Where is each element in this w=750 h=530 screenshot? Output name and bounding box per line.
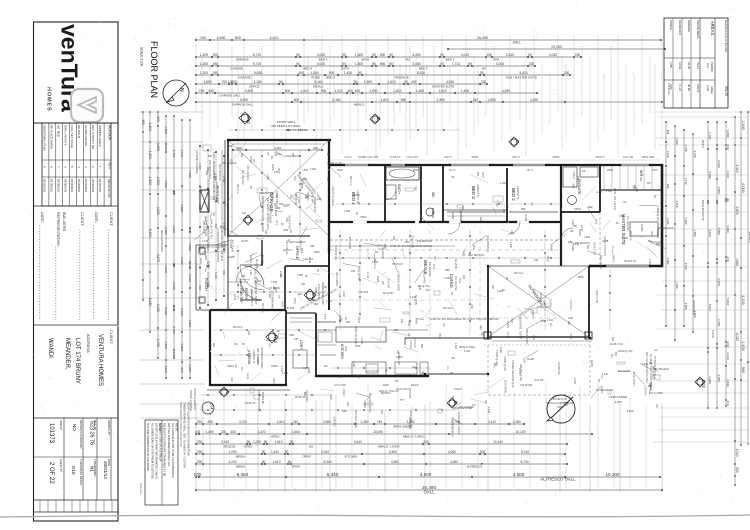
svg-text:3,590: 3,590 — [708, 171, 712, 179]
svg-text:3,610: 3,610 — [627, 409, 634, 413]
svg-text:NO: NO — [72, 424, 77, 431]
svg-text:4,000: 4,000 — [615, 400, 622, 404]
svg-text:DP: DP — [582, 170, 586, 173]
svg-text:5,810: 5,810 — [519, 71, 527, 75]
svg-text:LINEN: LINEN — [309, 299, 317, 302]
svg-text:LINEN: LINEN — [572, 171, 575, 179]
svg-text:190: 190 — [212, 53, 218, 57]
svg-text:2,030: 2,030 — [717, 160, 721, 168]
svg-text:OPNG: OPNG — [227, 365, 234, 368]
svg-text:REF: REF — [310, 245, 315, 248]
svg-text:TILE: TILE — [458, 278, 461, 284]
svg-text:PTY: PTY — [323, 314, 327, 320]
svg-text:6,010: 6,010 — [735, 333, 739, 341]
svg-text:RWP: RWP — [273, 203, 276, 209]
svg-text:4,500: 4,500 — [389, 450, 397, 454]
svg-text:1,800: 1,800 — [180, 343, 184, 351]
svg-text:1,500: 1,500 — [156, 177, 160, 185]
svg-text:PTY: PTY — [594, 219, 597, 224]
svg-text:50mm RENDERED BRICK PROJECTION: 50mm RENDERED BRICK PROJECTION — [179, 402, 182, 447]
svg-text:4,630: 4,630 — [164, 180, 168, 188]
svg-text:OUT AND COMMENCING OF ANY WORK: OUT AND COMMENCING OF ANY WORK. — [146, 423, 149, 472]
svg-text:MEALS AREA: MEALS AREA — [459, 346, 475, 349]
svg-text:330: 330 — [639, 177, 642, 182]
svg-text:230: 230 — [197, 440, 203, 444]
svg-text:600: 600 — [294, 98, 300, 102]
svg-text:BED 2: BED 2 — [701, 140, 705, 149]
svg-text:19,290: 19,290 — [551, 45, 562, 49]
svg-text:DGPO: DGPO — [531, 310, 534, 317]
svg-text:MW: MW — [314, 303, 319, 306]
svg-text:1,410: 1,410 — [366, 272, 369, 279]
sheet number vertical — [0, 0, 1, 1]
svg-text:MEANDER,: MEANDER, — [64, 338, 70, 370]
svg-text:5,810: 5,810 — [726, 298, 730, 306]
svg-text:1,200: 1,200 — [200, 62, 208, 66]
svg-text:100: 100 — [141, 119, 145, 125]
areas table — [664, 18, 728, 108]
svg-text:100mm RENDERED BRICK PROJECTIO: 100mm RENDERED BRICK PROJECTION — [212, 152, 215, 200]
svg-text:CARPET #1: CARPET #1 — [516, 186, 519, 200]
svg-text:230: 230 — [346, 402, 349, 407]
svg-text:10,100: 10,100 — [605, 472, 619, 477]
svg-text:SD: SD — [289, 230, 292, 234]
svg-text:1,500: 1,500 — [364, 80, 372, 84]
svg-text:ALL DIMENSIONS ON SITE PRIOR T: ALL DIMENSIONS ON SITE PRIOR TO SETTING — [150, 423, 153, 479]
svg-text:B/L @25c: B/L @25c — [454, 259, 457, 270]
top dimension row garage oall — [195, 89, 538, 98]
svg-text:230: 230 — [396, 350, 399, 355]
svg-text:REF: REF — [445, 269, 450, 272]
svg-text:FRONT ELEVATION: FRONT ELEVATION — [193, 388, 196, 410]
svg-text:SLIDOORS, SOFFIT: SLIDOORS, SOFFIT — [457, 412, 460, 436]
svg-text:OPNG: OPNG — [354, 326, 357, 333]
svg-text:5,710: 5,710 — [253, 53, 261, 57]
svg-text:3,010: 3,010 — [360, 338, 363, 345]
kitchen details — [316, 330, 428, 387]
svg-text:ADDITIONAL PLAN: ADDITIONAL PLAN — [43, 125, 47, 151]
svg-text:5,340: 5,340 — [327, 472, 339, 477]
svg-text:CARPET #1: CARPET #1 — [476, 184, 479, 198]
svg-text:1,710: 1,710 — [452, 62, 460, 66]
svg-text:SD: SD — [450, 292, 453, 296]
svg-text:25c CLG: 25c CLG — [349, 176, 352, 186]
svg-text:230: 230 — [188, 227, 192, 232]
svg-text:O/H CUPBD: O/H CUPBD — [649, 392, 663, 395]
svg-text:BUILDERS: BUILDERS — [62, 212, 66, 231]
svg-text:4,230: 4,230 — [229, 450, 237, 454]
svg-text:RSBP: RSBP — [472, 156, 479, 159]
svg-text:ROBE: ROBE — [524, 214, 528, 222]
svg-text:CLIENT:: CLIENT: — [80, 212, 84, 226]
svg-text:90: 90 — [262, 450, 266, 454]
svg-text:D14: D14 — [210, 403, 214, 409]
svg-text:SD: SD — [412, 366, 416, 369]
garage label — [269, 186, 334, 212]
revision table — [42, 123, 112, 206]
svg-text:16x7.5: 16x7.5 — [449, 170, 457, 172]
svg-text:WM: WM — [472, 245, 475, 249]
svg-text:4,230: 4,230 — [708, 229, 712, 237]
svg-text:DP: DP — [277, 295, 280, 299]
svg-text:OPNG: OPNG — [271, 365, 278, 368]
svg-text:BATH: BATH — [362, 58, 370, 62]
svg-text:REVISION: REVISION — [108, 125, 112, 141]
svg-text:TIMBER FRAMING: TIMBER FRAMING — [189, 390, 192, 411]
svg-text:DP: DP — [530, 202, 533, 206]
svg-text:COMBL CLR LAM: COMBL CLR LAM — [358, 156, 378, 159]
paper bottom edge — [0, 515, 750, 517]
svg-text:1,610: 1,610 — [277, 420, 285, 424]
svg-text:DATE:: DATE: — [40, 212, 44, 223]
svg-text:90: 90 — [296, 53, 300, 57]
svg-text:B: B — [376, 117, 381, 120]
svg-text:JM 28/11/11: JM 28/11/11 — [56, 179, 59, 193]
svg-text:1,410: 1,410 — [233, 294, 236, 301]
svg-text:760 x 62 LVL: 760 x 62 LVL — [613, 196, 616, 211]
svg-text:REF: REF — [414, 186, 417, 191]
svg-text:1,800: 1,800 — [268, 292, 271, 299]
svg-text:SD: SD — [570, 230, 574, 233]
svg-text:RSBP: RSBP — [337, 170, 344, 172]
svg-text:CARPET #2: CARPET #2 — [252, 350, 255, 364]
top dimension row passage — [195, 71, 571, 80]
svg-text:MW RECESS: MW RECESS — [525, 329, 528, 345]
svg-text:WM: WM — [572, 184, 575, 188]
svg-text:90: 90 — [389, 53, 393, 57]
svg-text:31c CEILING: 31c CEILING — [626, 216, 629, 231]
svg-text:LVL: LVL — [600, 375, 603, 380]
entry office walls — [240, 236, 329, 310]
svg-text:PASSAGE: PASSAGE — [395, 76, 409, 80]
svg-text:GAS HP: GAS HP — [534, 379, 544, 382]
svg-text:CAVITY CLOSER: CAVITY CLOSER — [331, 186, 334, 206]
svg-text:JAMB: JAMB — [256, 357, 259, 364]
svg-text:2,800: 2,800 — [156, 143, 160, 151]
svg-text:3,900: 3,900 — [708, 376, 712, 384]
svg-text:5,740: 5,740 — [521, 450, 529, 454]
bottom dim row 4 — [195, 450, 566, 459]
svg-text:AREAS:: AREAS: — [710, 21, 715, 36]
svg-text:WORKS Nº: WORKS Nº — [107, 420, 111, 436]
svg-text:1,010: 1,010 — [164, 365, 168, 373]
svg-text:JOB Nº: JOB Nº — [59, 420, 63, 431]
svg-text:TOWER DECKING @ 8c: TOWER DECKING @ 8c — [511, 360, 514, 389]
svg-text:1,410: 1,410 — [726, 352, 730, 360]
svg-text:REF: REF — [588, 206, 593, 209]
svg-text:330: 330 — [240, 153, 243, 158]
svg-text:TILE: TILE — [432, 264, 435, 270]
svg-text:ALFRESCO OALL: ALFRESCO OALL — [540, 477, 576, 482]
svg-text:1,610: 1,610 — [273, 460, 281, 464]
svg-text:3,010: 3,010 — [549, 53, 557, 57]
svg-text:2,400: 2,400 — [310, 168, 317, 171]
svg-text:35.86: 35.86 — [687, 84, 691, 91]
svg-text:(m2): (m2) — [706, 85, 710, 91]
svg-text:COATS: COATS — [612, 254, 615, 263]
svg-text:4,170: 4,170 — [156, 254, 160, 262]
svg-text:GAS HP: GAS HP — [387, 278, 390, 288]
svg-text:MASTER SUITE: MASTER SUITE — [432, 85, 454, 89]
svg-text:4,000: 4,000 — [431, 208, 434, 215]
svg-text:B/L @25c: B/L @25c — [414, 295, 417, 306]
svg-text:190: 190 — [212, 62, 218, 66]
svg-text:REF: REF — [230, 377, 233, 382]
svg-text:TILE: TILE — [344, 346, 347, 352]
bottom dim row 1 — [195, 420, 525, 429]
svg-text:a4cdr issue: a4cdr issue — [139, 483, 142, 495]
svg-text:RELEVANT AUSTRALIAN STANDARDS: RELEVANT AUSTRALIAN STANDARDS & THE — [163, 423, 166, 476]
svg-text:230: 230 — [568, 241, 573, 244]
client address block — [47, 330, 113, 386]
svg-text:1,800: 1,800 — [584, 236, 591, 239]
svg-text:JM 24/08/11: JM 24/08/11 — [70, 179, 73, 193]
svg-text:5,740: 5,740 — [521, 460, 529, 464]
svg-text:HOMES: HOMES — [46, 87, 52, 112]
svg-text:1,410: 1,410 — [547, 319, 554, 322]
svg-text:2,490: 2,490 — [726, 379, 730, 387]
svg-text:500: 500 — [666, 130, 670, 135]
bottom extension lines more — [203, 382, 646, 488]
svg-text:218.72: 218.72 — [696, 84, 700, 93]
svg-text:KITCHEN: KITCHEN — [345, 455, 358, 459]
svg-text:WANDI: WANDI — [47, 338, 53, 358]
svg-text:DO NOT SCALE FROM THIS DRAWING: DO NOT SCALE FROM THIS DRAWING, CHECK — [155, 423, 158, 479]
svg-text:Roof Area (m2 on the flat): Roof Area (m2 on the flat) — [724, 20, 728, 52]
svg-text:B/LINTEL @25c: B/LINTEL @25c — [354, 410, 357, 429]
timber framing note rotated — [139, 402, 190, 495]
north symbol bottom — [547, 395, 575, 423]
svg-text:OFFICE: OFFICE — [249, 85, 260, 89]
svg-text:610: 610 — [303, 178, 308, 181]
svg-text:GARAGE: GARAGE — [238, 76, 251, 80]
svg-text:RWP: RWP — [481, 172, 484, 178]
svg-text:B: B — [453, 401, 458, 404]
svg-text:4,410: 4,410 — [487, 407, 490, 414]
svg-text:3,450: 3,450 — [412, 53, 420, 57]
svg-text:230: 230 — [266, 339, 271, 342]
svg-text:25c CLG: 25c CLG — [443, 307, 453, 310]
svg-text:MASTER SUITE: MASTER SUITE — [621, 214, 626, 245]
svg-text:REF: REF — [479, 325, 482, 330]
svg-text:SD: SD — [549, 323, 552, 327]
right block rotated room labels — [692, 140, 715, 338]
svg-text:OPNG: OPNG — [338, 315, 341, 322]
bottom dim row 26,490 — [195, 485, 663, 495]
svg-text:1,500: 1,500 — [741, 120, 745, 130]
svg-text:PTY: PTY — [274, 220, 277, 225]
svg-text:CSD: CSD — [283, 229, 288, 232]
svg-text:RWP: RWP — [355, 345, 361, 348]
svg-text:900: 900 — [380, 53, 386, 57]
svg-text:600: 600 — [208, 155, 213, 158]
svg-text:740: 740 — [377, 420, 383, 424]
svg-text:1,410: 1,410 — [202, 240, 209, 243]
svg-text:18x7.5: 18x7.5 — [444, 156, 452, 159]
bedroom band bottom wall — [329, 221, 560, 223]
svg-text:900: 900 — [298, 293, 303, 296]
svg-text:SD: SD — [287, 239, 290, 243]
svg-text:DP: DP — [647, 182, 651, 185]
svg-text:230: 230 — [564, 71, 570, 75]
svg-text:OALL: OALL — [424, 490, 436, 495]
svg-text:RECESS: RECESS — [413, 338, 416, 348]
svg-text:230: 230 — [726, 144, 730, 149]
svg-text:26,490: 26,490 — [477, 36, 488, 40]
svg-text:90: 90 — [468, 62, 472, 66]
svg-text:1,700: 1,700 — [156, 339, 160, 347]
svg-text:900: 900 — [420, 344, 423, 349]
svg-text:190: 190 — [298, 71, 304, 75]
svg-text:1,500: 1,500 — [148, 151, 152, 160]
interior dim strings horizontal in plan — [200, 129, 560, 410]
master suite extras — [557, 196, 637, 375]
svg-text:RWP: RWP — [438, 333, 441, 339]
svg-text:A: A — [249, 218, 254, 221]
svg-text:4,390: 4,390 — [436, 98, 444, 102]
svg-text:1,690: 1,690 — [203, 80, 211, 84]
svg-text:B/L @25c: B/L @25c — [383, 292, 394, 295]
svg-text:LINEN: LINEN — [342, 388, 345, 396]
svg-text:CSD: CSD — [285, 217, 288, 222]
svg-text:MEALS / LIVING: MEALS / LIVING — [403, 435, 425, 439]
svg-text:610: 610 — [304, 195, 307, 200]
svg-text:2,410: 2,410 — [488, 420, 496, 424]
svg-text:TROUGH: TROUGH — [392, 263, 403, 266]
svg-text:SD: SD — [270, 155, 273, 159]
svg-text:OPNG: OPNG — [396, 356, 403, 359]
svg-text:DP: DP — [541, 320, 545, 323]
svg-text:6,450: 6,450 — [237, 472, 249, 477]
job table bottom row cells — [34, 500, 119, 512]
svg-text:MW: MW — [314, 287, 317, 292]
svg-text:MEALS: MEALS — [354, 103, 364, 107]
top dimension row extra — [195, 98, 663, 107]
svg-text:2,490: 2,490 — [222, 176, 226, 183]
svg-text:1,410: 1,410 — [308, 257, 311, 264]
svg-text:90: 90 — [264, 440, 268, 444]
svg-text:LINE OF 25c BULKHEAD W/ LIGHT: LINE OF 25c BULKHEAD W/ LIGHT TROUGH ABO… — [430, 317, 498, 321]
svg-text:400: 400 — [230, 430, 236, 434]
svg-text:9,610: 9,610 — [354, 440, 362, 444]
svg-text:REF: REF — [342, 410, 347, 413]
svg-text:4,500: 4,500 — [513, 472, 525, 477]
svg-text:DP: DP — [326, 153, 329, 157]
svg-text:820: 820 — [510, 319, 513, 324]
svg-text:OPNG: OPNG — [302, 455, 311, 459]
svg-text:OPNG: OPNG — [360, 216, 367, 219]
svg-text:4,630: 4,630 — [172, 225, 176, 233]
svg-text:5,810: 5,810 — [708, 304, 712, 312]
svg-text:1,410: 1,410 — [344, 71, 352, 75]
svg-text:90: 90 — [372, 62, 376, 66]
svg-text:25xSP 90: 25xSP 90 — [295, 396, 306, 399]
svg-text:90: 90 — [285, 450, 289, 454]
svg-text:523 26 76: 523 26 76 — [89, 421, 95, 445]
svg-text:BALL @ 25c: BALL @ 25c — [357, 266, 360, 281]
top dimension row bed4 bath — [195, 53, 582, 62]
svg-text:REF: REF — [510, 230, 513, 235]
svg-text:ALFRESCO: ALFRESCO — [466, 465, 482, 469]
kitchen — [316, 327, 488, 376]
right dim extension lines — [652, 112, 748, 442]
svg-text:OPNG: OPNG — [578, 229, 581, 236]
svg-text:1200 OPNG: 1200 OPNG — [422, 270, 425, 284]
svg-text:2 x 100x100 TIMBER POSTS: 2 x 100x100 TIMBER POSTS — [216, 228, 220, 262]
svg-text:RWA LAYOUTS: RWA LAYOUTS — [63, 125, 67, 146]
svg-text:240 x 90 LVL: 240 x 90 LVL — [246, 165, 250, 181]
svg-text:BED 4: BED 4 — [319, 58, 328, 62]
svg-text:810: 810 — [735, 467, 739, 473]
svg-text:3,000: 3,000 — [317, 53, 325, 57]
svg-text:90: 90 — [480, 71, 484, 75]
svg-text:17.22: 17.22 — [678, 84, 682, 91]
svg-text:SLOPE GRANO: SLOPE GRANO — [84, 125, 88, 147]
svg-text:DGPO: DGPO — [600, 386, 603, 393]
svg-text:JM 19/08/11: JM 19/08/11 — [77, 179, 80, 193]
svg-text:16x7.5: 16x7.5 — [527, 170, 535, 172]
svg-text:BASIN: BASIN — [249, 255, 252, 263]
svg-text:3,160: 3,160 — [253, 80, 261, 84]
svg-text:DP: DP — [338, 294, 341, 298]
left dim extension lines — [140, 112, 205, 418]
svg-text:1,800: 1,800 — [355, 53, 363, 57]
garage inner diagonal notes — [246, 165, 324, 256]
svg-text:CSD: CSD — [470, 304, 473, 309]
svg-text:NOTE:: NOTE: — [175, 423, 179, 432]
svg-text:4,000: 4,000 — [726, 225, 730, 233]
svg-text:25/10.5 SD: 25/10.5 SD — [411, 235, 414, 248]
svg-text:500: 500 — [741, 367, 745, 373]
svg-text:RWP: RWP — [578, 276, 584, 279]
svg-text:20/01/12: 20/01/12 — [103, 461, 108, 479]
svg-text:RWP: RWP — [199, 258, 202, 264]
svg-text:DP: DP — [277, 207, 281, 210]
svg-text:ADDRESS:: ADDRESS: — [86, 334, 90, 353]
svg-text:JAMB: JAMB — [602, 240, 609, 243]
svg-text:1,410: 1,410 — [326, 300, 333, 303]
svg-text:RWP: RWP — [329, 394, 332, 400]
porch slab hatch — [196, 247, 226, 300]
svg-text:90: 90 — [528, 53, 532, 57]
porch outline — [196, 245, 228, 310]
svg-text:1,200: 1,200 — [596, 191, 603, 194]
svg-text:1,010: 1,010 — [222, 223, 226, 230]
svg-text:330: 330 — [205, 171, 208, 176]
svg-text:END / MASTER SUITE: END / MASTER SUITE — [506, 76, 537, 80]
svg-text:100: 100 — [195, 430, 201, 434]
svg-text:REF RECESS: REF RECESS — [468, 254, 484, 257]
top wall texts row2 — [337, 170, 658, 172]
svg-text:4,230: 4,230 — [229, 460, 237, 464]
svg-text:1,200: 1,200 — [255, 280, 262, 283]
svg-text:90: 90 — [290, 440, 294, 444]
svg-text:BED 3: BED 3 — [471, 186, 476, 199]
garage walls — [227, 139, 330, 253]
svg-text:2,650: 2,650 — [735, 207, 739, 215]
svg-text:101373: 101373 — [48, 423, 54, 444]
svg-text:JAMB: JAMB — [279, 271, 282, 278]
svg-text:1,510: 1,510 — [693, 311, 697, 318]
svg-text:600: 600 — [611, 337, 614, 342]
svg-text:330: 330 — [451, 357, 456, 360]
svg-text:330: 330 — [164, 145, 168, 150]
svg-text:C: C — [515, 140, 520, 143]
svg-text:SD: SD — [407, 333, 410, 337]
svg-text:MW: MW — [451, 396, 454, 401]
detail markers — [239, 112, 251, 124]
svg-text:1,410: 1,410 — [271, 450, 279, 454]
